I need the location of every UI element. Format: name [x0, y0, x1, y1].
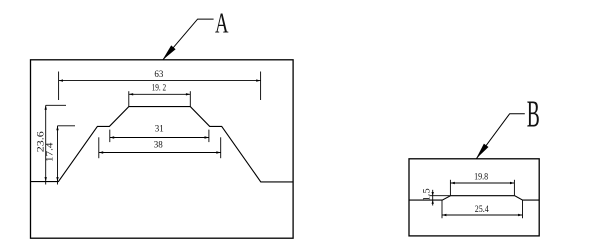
dimension 19.8 left arrow — [450, 182, 454, 184]
dimension 31 right arrow — [205, 136, 209, 138]
dimension 23.6 vertical line — [45, 105, 47, 184]
dimension 31 left extension line — [109, 130, 111, 143]
dimension 19.8 right arrow — [510, 182, 514, 184]
dimension 1.5 upper arrow — [432, 192, 434, 196]
section view A outline rectangle — [31, 60, 294, 238]
dimension 19.2 right arrow — [186, 93, 190, 95]
dimension 23.6 top extension tick — [46, 104, 66, 106]
svg-text:19.8: 19.8 — [474, 171, 488, 181]
dimension 25.4 left extension line — [441, 201, 443, 219]
svg-text:31: 31 — [155, 124, 164, 134]
dimension 63 right extension line — [260, 72, 262, 101]
dimension 19.2 left extension line — [128, 91, 130, 106]
dimension 38 left extension line — [98, 137, 100, 158]
dimension 38 right arrow — [216, 151, 220, 153]
dimension 1.5 vertical line — [432, 190, 434, 206]
dimension 63 left extension line — [58, 72, 60, 101]
dimension 31 right extension line — [208, 130, 210, 143]
dimension 63 left arrow — [59, 79, 63, 81]
svg-text:19. 2: 19. 2 — [152, 83, 167, 93]
dimension 19.8 right extension line — [513, 180, 515, 196]
dimension 23.6 top arrow — [45, 105, 47, 109]
svg-text:63: 63 — [154, 69, 164, 79]
profile polyline of view B (shallow rib cross-section) — [409, 196, 539, 200]
svg-text:B: B — [527, 94, 540, 136]
dimension 19.8 line — [450, 182, 514, 184]
dimension 19.8 left extension line — [449, 180, 451, 196]
svg-text:A: A — [215, 7, 229, 39]
dimension 25.4 right extension line — [522, 201, 524, 219]
dimension 1.5 upper extension tick — [430, 195, 451, 197]
dimension 19.2 left arrow — [129, 93, 133, 95]
dimension 19.2 line — [129, 93, 191, 95]
dimension 25.4 left arrow — [442, 214, 446, 216]
dimension 17.4 vertical line — [57, 126, 59, 185]
section view B outline rectangle — [409, 159, 539, 236]
leader B arrowhead — [476, 144, 489, 159]
profile polyline of view A (trapezoid rib cross-section) — [31, 107, 294, 182]
dimension 63 line — [59, 80, 261, 82]
svg-text:38: 38 — [154, 139, 164, 149]
dimension 19.2 right extension line — [189, 91, 191, 106]
dimension 17.4 bottom arrow — [56, 177, 58, 181]
dimension 25.4 line — [442, 214, 523, 216]
dimension 31 left arrow — [110, 136, 114, 138]
svg-text:1.5: 1.5 — [421, 188, 431, 202]
dimension 38 right extension line — [220, 137, 222, 158]
dimension 1.5 lower arrow — [432, 200, 434, 204]
dimension 17.4 top extension tick — [58, 125, 76, 127]
dimension 38 line — [99, 152, 221, 154]
svg-text:17.4: 17.4 — [44, 142, 54, 162]
svg-text:25.4: 25.4 — [475, 204, 489, 214]
dimension 25.4 right arrow — [518, 214, 522, 216]
dimension 38 left arrow — [99, 151, 103, 153]
dimension 17.4 top arrow — [56, 126, 58, 130]
dimension 63 right arrow — [256, 79, 260, 81]
leader line for label A — [163, 19, 214, 60]
leader A arrowhead — [162, 45, 175, 60]
dimension 31 line — [110, 137, 209, 139]
leader line for label B — [476, 114, 525, 159]
dimension 23.6 bottom arrow — [45, 177, 47, 181]
